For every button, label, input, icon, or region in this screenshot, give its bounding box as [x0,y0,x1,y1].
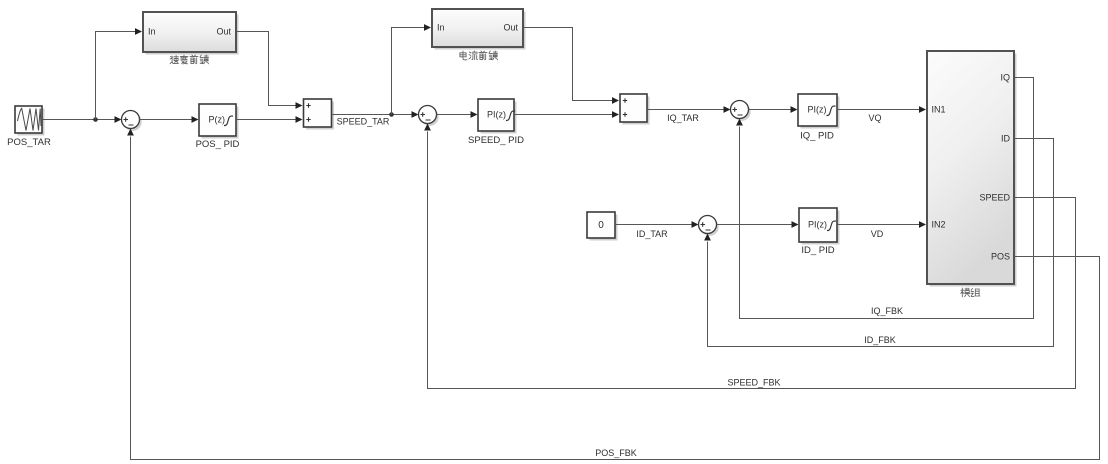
junction on POS_TAR wire [93,117,98,122]
label 电流前馈 [460,51,498,60]
wire branch up to 速度前馈 In [96,32,136,120]
wire IQ feedback, IQ_FBK [740,78,1034,319]
adder A2 [620,94,650,125]
sum S1 (POS) [122,111,142,131]
svg-text:PI(z): PI(z) [487,110,506,120]
svg-text:POS_FBK: POS_FBK [595,448,637,458]
svg-text:SPEED_TAR: SPEED_TAR [337,117,390,127]
block IQ_PID [798,94,840,129]
sum S4 (ID) [699,216,719,236]
svg-text:SPEED: SPEED [979,193,1010,203]
svg-text:IN2: IN2 [932,220,946,230]
wire POS_PID to adder A1 [236,119,296,121]
wire S4 to ID_PID [717,224,792,226]
subsystem 速度前馈 [143,12,239,55]
wire S1 to POS_PID [140,119,192,121]
svg-text:In: In [437,23,445,33]
svg-text:SPEED_FBK: SPEED_FBK [727,378,780,388]
svg-text:POS_TAR: POS_TAR [7,137,51,148]
svg-text:P(z): P(z) [209,115,226,125]
block POS_PID [199,104,239,139]
wire POS feedback, POS_FBK [131,137,1100,460]
wire A2 to sum S3, IQ_TAR [647,109,724,111]
svg-text:IN1: IN1 [932,105,946,115]
svg-text:VD: VD [871,229,884,239]
svg-text:IQ_TAR: IQ_TAR [667,113,699,123]
wire ID feedback, ID_FBK [708,139,1054,347]
svg-text:ID_FBK: ID_FBK [864,335,896,345]
svg-text:ID: ID [1001,134,1011,144]
svg-text:VQ: VQ [868,113,881,123]
wire SPEED feedback, SPEED_FBK [428,132,1076,389]
svg-text:PI(z): PI(z) [808,220,827,230]
svg-text:Out: Out [216,27,231,37]
adder A1 [304,99,335,130]
wire 速度前馈 Out to adder A1 [236,32,296,106]
svg-text:ID_TAR: ID_TAR [636,229,668,239]
subsystem 电流前馈 [432,9,526,50]
label 模组 [961,288,980,297]
wire 电流前馈 Out to adder A2 [523,28,612,101]
svg-text:IQ_ PID: IQ_ PID [800,131,834,142]
wire S3 to IQ_PID [749,109,791,111]
wire S2 to SPEED_PID [437,114,471,116]
constant ZERO [587,212,618,241]
wire branch up to 电流前馈 In [392,28,425,115]
source POS_TAR [15,106,45,136]
svg-text:ID_ PID: ID_ PID [801,245,834,256]
block SPEED_PID [478,99,517,134]
svg-text:Out: Out [503,23,518,33]
svg-text:IQ_FBK: IQ_FBK [871,306,903,316]
wire ID_PID to IN2, VD [837,224,919,226]
svg-text:SPEED_ PID: SPEED_ PID [468,135,524,146]
sum S3 (IQ) [731,101,751,121]
svg-text:In: In [148,27,156,37]
subsystem 模组 [927,51,1017,287]
svg-text:PI(z): PI(z) [808,105,827,115]
label 速度前馈 [170,55,209,64]
wire SPEED_PID to adder A2 [514,114,612,116]
svg-text:POS_ PID: POS_ PID [196,139,240,150]
svg-text:IQ: IQ [1000,73,1010,83]
svg-text:POS: POS [991,252,1010,262]
wire A1 to sum S2, SPEED_TAR [332,114,412,116]
wire IQ_PID to IN1, VQ [837,109,919,111]
block ID_PID [799,208,840,245]
wire ZERO to sum S4, ID_TAR [615,224,692,226]
wire POS_TAR to sum S1 [42,119,115,121]
sum S2 (SPEED) [419,106,439,126]
svg-text:0: 0 [598,220,604,231]
